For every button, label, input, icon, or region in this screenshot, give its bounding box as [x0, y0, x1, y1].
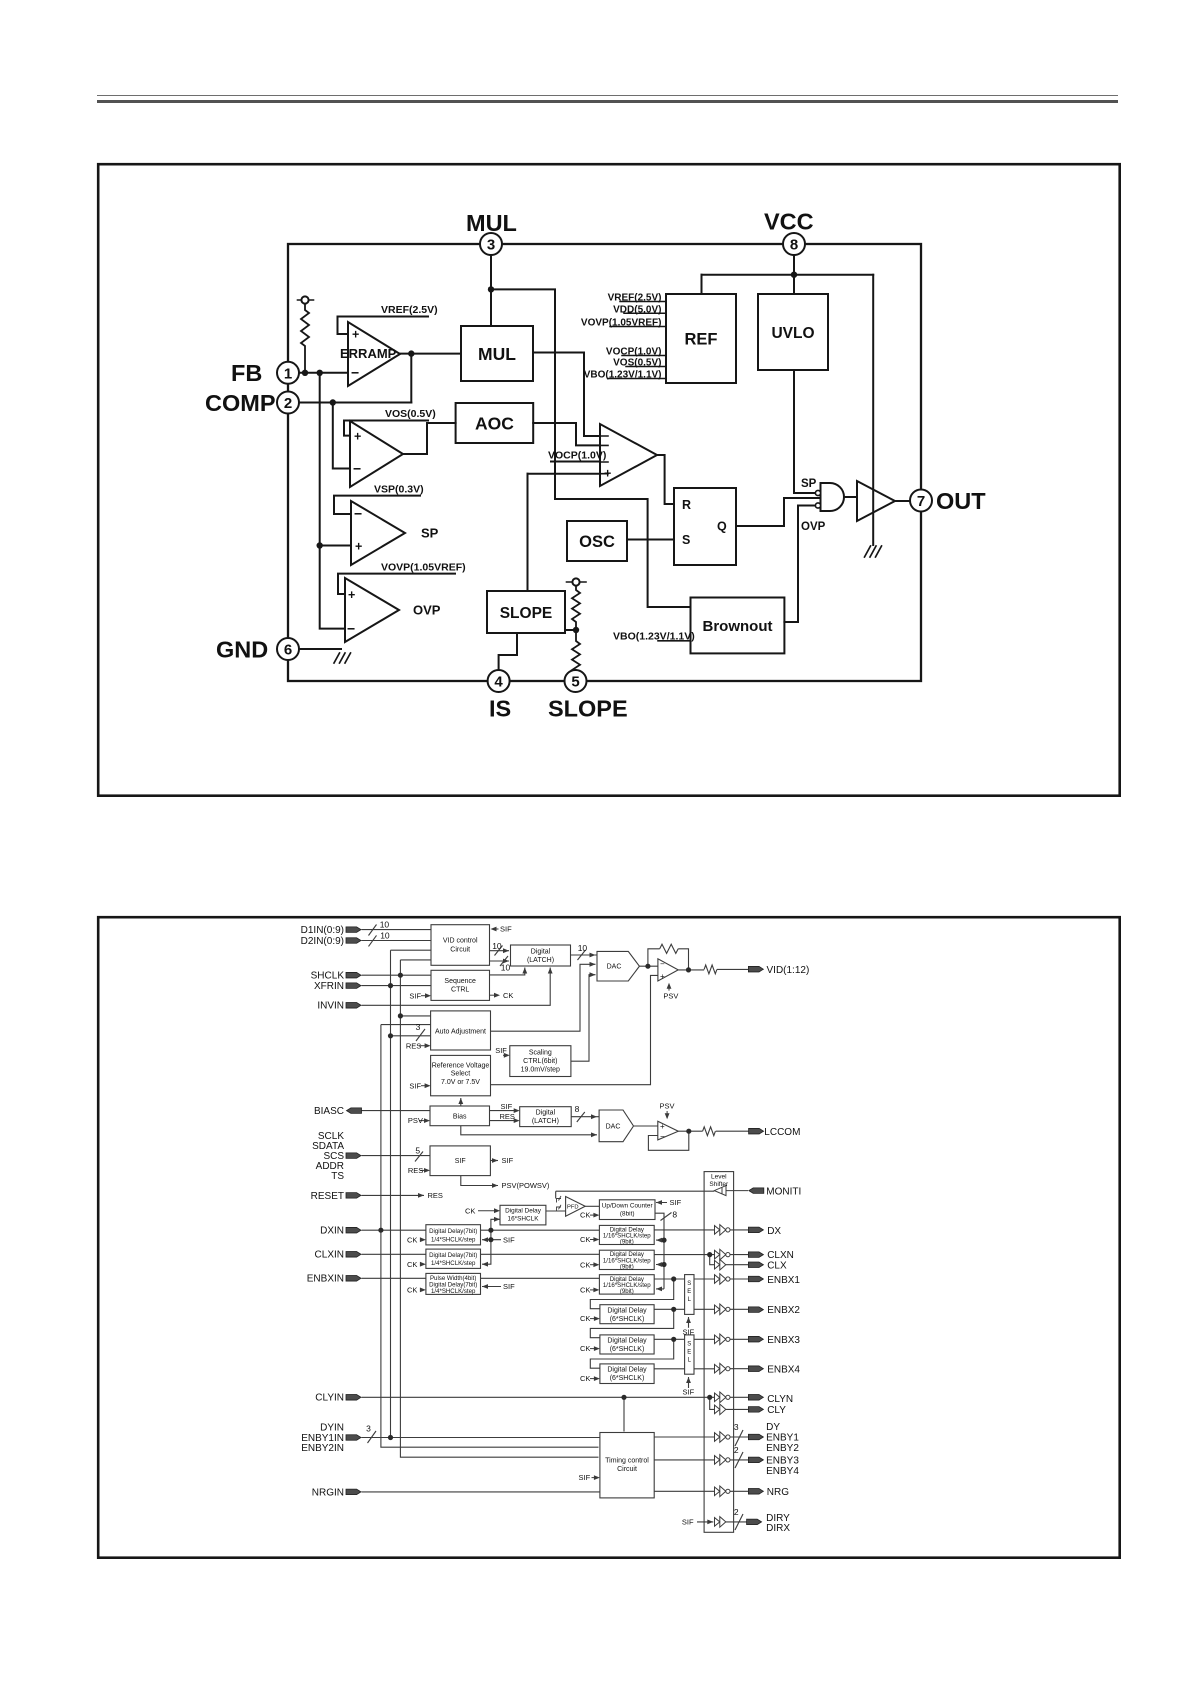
- svg-text:Shifter: Shifter: [709, 1181, 729, 1188]
- SEL1 box: [685, 1275, 694, 1315]
- buffer DX inverting: [715, 1225, 726, 1236]
- wire OSC to S input: [627, 539, 674, 541]
- svg-text:−: −: [660, 960, 665, 969]
- svg-text:Auto Adjustment: Auto Adjustment: [435, 1029, 486, 1036]
- svg-text:SIF: SIF: [503, 1282, 515, 1291]
- svg-text:3: 3: [734, 1422, 739, 1432]
- svg-text:(9bit): (9bit): [620, 1288, 634, 1295]
- svg-text:8: 8: [575, 1104, 580, 1114]
- wire BIASC input: [362, 1110, 431, 1112]
- opamp2 triangle: [658, 1121, 679, 1140]
- buffer ENBX1 inverting: [715, 1274, 726, 1285]
- svg-text:PSV: PSV: [660, 1102, 675, 1111]
- wire dxin row: [362, 1229, 715, 1231]
- node dots figure2: [398, 973, 403, 978]
- svg-text:10: 10: [501, 963, 511, 973]
- Auto Adjustment box: [431, 1011, 491, 1050]
- svg-text:ENBX2: ENBX2: [767, 1305, 800, 1316]
- svg-text:CK: CK: [580, 1344, 590, 1353]
- wire AND output to buffer: [844, 496, 857, 498]
- wire VOS(0.5V) reference into AOC comparator plus: [344, 421, 428, 436]
- svg-text:DY: DY: [766, 1422, 780, 1433]
- wire clyin row: [362, 1396, 715, 1398]
- flip-flop U6 RS latch box: [674, 488, 736, 565]
- svg-text:Timing control: Timing control: [605, 1458, 649, 1465]
- buffer CLXN inverting: [715, 1249, 726, 1260]
- svg-text:Circuit: Circuit: [450, 947, 470, 954]
- wire sel1 sif arrow: [688, 1317, 690, 1328]
- wire V2 branch to auto adjustment in1: [400, 1015, 430, 1017]
- pfd input step glyph top: [557, 1196, 562, 1203]
- svg-text:CK: CK: [407, 1260, 417, 1269]
- wire clxn to clx buffer: [710, 1255, 715, 1265]
- wire enbx3 row out: [654, 1338, 714, 1340]
- buffer ENBX3 inverting: [715, 1334, 726, 1345]
- svg-text:8: 8: [672, 1209, 677, 1219]
- svg-text:(9bit): (9bit): [620, 1264, 634, 1271]
- wire auto adjustment to dac1: [491, 964, 596, 1031]
- wire FB vertical bus down to SP and OVP comparators: [320, 373, 345, 629]
- wire enbxin sif stub: [482, 1286, 501, 1288]
- pin 4 IS circle: [488, 670, 510, 692]
- buffer output lines to pads: [730, 1229, 748, 1231]
- svg-text:Sequence: Sequence: [444, 978, 476, 985]
- wire 16shclk delay to pfd: [546, 1210, 566, 1212]
- resistor R-lccom series: [703, 1127, 716, 1136]
- wire timing out enby1: [654, 1436, 714, 1438]
- node dot COMP junction: [330, 399, 336, 405]
- ground at GND pin: [334, 653, 351, 663]
- wire SLOPE box bottom to IS pin: [499, 633, 517, 670]
- wire sequence ctrl output up into latch1: [490, 968, 525, 975]
- wire SHCLK: [362, 974, 432, 976]
- wire XFRIN: [362, 985, 432, 987]
- svg-text:RES: RES: [408, 1166, 423, 1175]
- svg-text:RESET: RESET: [311, 1191, 344, 1202]
- REF block box: [666, 294, 736, 383]
- wire VSP(0.3V) reference into SP comparator minus: [334, 496, 420, 514]
- pin 1 FB circle: [277, 362, 299, 384]
- svg-text:Digital Delay: Digital Delay: [505, 1208, 542, 1215]
- Brownout block box: [691, 598, 785, 654]
- svg-text:CLYN: CLYN: [767, 1394, 793, 1405]
- svg-text:NRGIN: NRGIN: [312, 1487, 344, 1498]
- svg-text:CK: CK: [580, 1260, 590, 1269]
- svg-text:7.0V or 7.5V: 7.0V or 7.5V: [441, 1079, 480, 1086]
- wire opamp1 feedback loop with resistor: [648, 949, 689, 970]
- svg-text:CLYIN: CLYIN: [315, 1393, 344, 1404]
- pin 2 COMP circle: [277, 392, 299, 414]
- svg-text:+: +: [660, 972, 665, 981]
- buffer NRG inverting: [715, 1486, 726, 1497]
- ground below driver: [865, 546, 882, 557]
- Digital LATCH1 box: [511, 945, 571, 966]
- svg-text:PFD: PFD: [567, 1205, 579, 1211]
- node dot FB bus junction: [317, 370, 323, 376]
- resistor R-fb1: [660, 944, 678, 953]
- wire opamp1 output to VID pad: [678, 968, 748, 971]
- svg-text:ENBY2IN: ENBY2IN: [301, 1443, 344, 1454]
- wire enbxin row: [362, 1277, 715, 1280]
- pin 3 MUL circle: [480, 233, 502, 255]
- svg-text:3: 3: [366, 1423, 371, 1433]
- delay116 box2R: [599, 1250, 654, 1269]
- buffer ENBX4 inverting: [715, 1363, 726, 1374]
- svg-text:1/4*SHCLK/step: 1/4*SHCLK/step: [431, 1260, 476, 1267]
- svg-text:SIF: SIF: [683, 1328, 695, 1337]
- wire vcc horizontal distribution: [702, 274, 874, 276]
- wire buffer to OUT pin: [895, 500, 910, 502]
- svg-text:SIF: SIF: [409, 1081, 421, 1090]
- buffer U8 output driver triangle: [857, 481, 895, 521]
- wire SLOPE box right to resistor node: [565, 629, 576, 631]
- delay6 box5: [600, 1335, 654, 1354]
- svg-text:CK: CK: [407, 1286, 417, 1295]
- pin 6 GND circle: [277, 638, 299, 660]
- bus slash marks: [369, 925, 377, 936]
- pin 5 SLOPE circle: [565, 670, 587, 692]
- svg-text:SIF: SIF: [503, 1235, 515, 1244]
- resistor R-slope upper: [567, 581, 587, 583]
- wire GND pin to ground symbol: [299, 648, 341, 650]
- PFD triangle: [566, 1197, 586, 1217]
- wire VOCP threshold into comparator input3: [551, 461, 600, 463]
- svg-text:SIF: SIF: [501, 1102, 513, 1111]
- svg-text:DIRX: DIRX: [766, 1523, 790, 1534]
- resistor R-FB vertical on FB pin: [298, 299, 314, 301]
- svg-text:CLXIN: CLXIN: [315, 1250, 344, 1261]
- buffer ENBX2 inverting: [715, 1304, 726, 1315]
- svg-text:VID(1:12): VID(1:12): [767, 965, 810, 976]
- svg-text:CK: CK: [580, 1211, 590, 1220]
- svg-text:BIASC: BIASC: [314, 1106, 344, 1117]
- svg-text:CK: CK: [503, 991, 513, 1000]
- wire latch2 to dac2 bus8: [571, 1116, 599, 1118]
- svg-text:10: 10: [578, 943, 588, 953]
- wire Q output to AND gate: [736, 498, 821, 526]
- comparator input ticks: [601, 436, 608, 474]
- svg-text:ENBXIN: ENBXIN: [307, 1274, 344, 1285]
- svg-text:Digital Delay: Digital Delay: [607, 1338, 647, 1345]
- svg-text:Circuit: Circuit: [617, 1466, 637, 1473]
- svg-text:16*SHCLK: 16*SHCLK: [508, 1215, 540, 1222]
- svg-text:NRG: NRG: [767, 1487, 789, 1498]
- wire MONIT line to buffer and PFD: [556, 1191, 715, 1198]
- svg-text:RES: RES: [428, 1191, 443, 1200]
- svg-text:Digital Delay(7bit): Digital Delay(7bit): [429, 1252, 477, 1259]
- svg-text:CK: CK: [580, 1235, 590, 1244]
- wire SCLK bus into SIF box: [362, 1155, 431, 1157]
- node dot slope resistor junction: [573, 627, 579, 633]
- pulsewidth delay7 box3L: [426, 1273, 481, 1294]
- wire SIF box psv output: [461, 1176, 498, 1186]
- psv arrow opamp1 up: [667, 985, 669, 1119]
- svg-text:(LATCH): (LATCH): [527, 957, 554, 964]
- comparator U3 SP triangle: [351, 501, 405, 565]
- wire D2IN bus: [362, 940, 432, 942]
- wire Brownout left input label line VBO: [658, 640, 691, 642]
- svg-text:10: 10: [492, 941, 502, 951]
- wire scaling ctrl to dac1: [571, 975, 596, 1061]
- Digital LATCH2 box: [520, 1107, 572, 1127]
- node dot erramp out junction: [408, 350, 414, 356]
- delay116 box3R: [599, 1275, 654, 1294]
- delay7 box1L: [426, 1225, 481, 1245]
- wire vertical V2 shclk/vid/timing: [400, 960, 598, 1457]
- wire VOVP(1.05VREF) reference into OVP comparator plus: [338, 574, 455, 594]
- UpDown Counter box: [599, 1200, 655, 1220]
- svg-text:Reference Voltage: Reference Voltage: [432, 1062, 490, 1069]
- svg-text:2: 2: [734, 1507, 739, 1517]
- svg-text:CK: CK: [580, 1286, 590, 1295]
- wire opamp2 output to LCCOM pad: [678, 1130, 748, 1132]
- buffer DY ENBY inverting: [715, 1432, 726, 1443]
- wire pfd to counter: [585, 1205, 599, 1207]
- wire latch1 to dac1 bus: [571, 954, 598, 956]
- wire vertical V3 autoadj/dxin/timing: [381, 1025, 599, 1448]
- output pads right column: [748, 966, 763, 972]
- Scaling CTRL box: [510, 1046, 571, 1077]
- svg-text:SIF: SIF: [682, 1518, 694, 1527]
- wire dxin sif stub and chain down: [482, 1230, 501, 1264]
- wire timing out nrg: [654, 1490, 714, 1492]
- SLOPE block box: [487, 591, 565, 633]
- wire wrap enbx2 to delay6 box5: [590, 1309, 673, 1337]
- wire COMP branch down to AOC comparator minus input: [333, 403, 350, 469]
- svg-text:3: 3: [416, 1022, 421, 1032]
- svg-text:Digital Delay: Digital Delay: [607, 1367, 647, 1374]
- REF label stub lines: [608, 302, 666, 379]
- svg-text:ENBX4: ENBX4: [767, 1364, 800, 1375]
- svg-text:CTRL: CTRL: [451, 987, 469, 994]
- svg-text:Bias: Bias: [453, 1113, 467, 1120]
- svg-text:5: 5: [415, 1145, 420, 1155]
- label stub lines: [496, 928, 499, 930]
- comparator U4 OVP triangle: [345, 578, 399, 642]
- figure 1 outer frame: [98, 164, 1119, 796]
- wire VREF(2.5V) reference into ERRAMP plus: [338, 317, 429, 335]
- wire slope signal to comparator plus input4: [528, 473, 601, 475]
- svg-text:CK: CK: [407, 1235, 417, 1244]
- pin 7 OUT circle: [910, 490, 932, 512]
- buffer ENBY3 inverting: [715, 1455, 726, 1466]
- svg-text:CLY: CLY: [767, 1405, 786, 1416]
- svg-text:VID control: VID control: [443, 938, 478, 945]
- wire clxin row: [362, 1253, 715, 1255]
- delay7 box2L: [426, 1249, 481, 1268]
- opamp1 triangle: [658, 959, 678, 981]
- svg-text:CK: CK: [465, 1206, 475, 1215]
- MONITI pad points left: [749, 1188, 764, 1194]
- svg-text:Digital: Digital: [536, 1110, 556, 1117]
- node dot pin3 junction: [488, 286, 494, 292]
- wire enby1in bus into timing: [362, 1437, 600, 1439]
- wire SIF box output: [490, 1160, 498, 1162]
- svg-text:TS: TS: [331, 1171, 344, 1182]
- Reference Voltage Select box: [431, 1055, 491, 1095]
- wire dac1 output to opamp1: [639, 964, 658, 967]
- svg-text:DX: DX: [767, 1226, 781, 1237]
- wire vid to latch1 bus a: [490, 950, 510, 952]
- svg-text:S: S: [687, 1342, 691, 1348]
- DAC1 polygon: [597, 951, 639, 981]
- wire vertical V1 xfrin/vid/enby: [391, 950, 432, 1437]
- wire COMP pin to erramp output junction: [299, 402, 411, 404]
- svg-text:Digital: Digital: [531, 949, 551, 956]
- VID control circuit box: [431, 925, 490, 966]
- svg-text:SIF: SIF: [500, 925, 512, 934]
- svg-text:CTRL(6bit): CTRL(6bit): [523, 1058, 557, 1065]
- wire AOC output to PWM comparator input2: [533, 422, 545, 424]
- svg-text:E: E: [687, 1289, 691, 1295]
- wire ERRAMP output to MUL box, with branch down to COMP: [400, 353, 461, 355]
- svg-text:D1IN(0:9): D1IN(0:9): [301, 925, 344, 936]
- op-amp U1 ERRAMP triangle: [348, 322, 400, 386]
- svg-text:SIF: SIF: [455, 1158, 466, 1165]
- svg-text:PSV(POWSV): PSV(POWSV): [502, 1181, 550, 1190]
- svg-text:(6*SHCLK): (6*SHCLK): [610, 1316, 645, 1323]
- svg-text:XFRIN: XFRIN: [314, 981, 344, 992]
- svg-text:D2IN(0:9): D2IN(0:9): [301, 936, 344, 947]
- svg-text:LCCOM: LCCOM: [764, 1127, 800, 1138]
- wire wrap enbx3 to delay6 box6: [590, 1339, 673, 1368]
- wire pin3 net to osc/brownout: right, down, right, down into Brownout: [491, 289, 691, 607]
- gate U7 AND gate: [821, 483, 845, 511]
- svg-text:Level: Level: [711, 1174, 727, 1181]
- svg-text:Up/Down Counter: Up/Down Counter: [602, 1203, 654, 1210]
- wire REF top feed: [701, 275, 703, 294]
- svg-text:PSV: PSV: [408, 1116, 423, 1125]
- svg-text:(6*SHCLK): (6*SHCLK): [610, 1375, 645, 1382]
- buffer DIRY: [715, 1517, 726, 1528]
- wire opamp2 feedback loop: [648, 1131, 688, 1150]
- wire enbx4 row out: [654, 1368, 714, 1370]
- wire D1IN bus: [362, 929, 432, 931]
- svg-text:(6*SHCLK): (6*SHCLK): [610, 1346, 645, 1353]
- Level shifter column: [704, 1172, 734, 1533]
- buffer MONITI left-pointing: [714, 1186, 726, 1196]
- svg-text:(9bit): (9bit): [620, 1239, 634, 1246]
- pin 8 VCC circle: [783, 233, 805, 255]
- svg-text:1/4*SHCLK/step: 1/4*SHCLK/step: [431, 1288, 476, 1295]
- wire Brownout output up to OVP gate input: [784, 506, 814, 623]
- BIASC pad points left: [347, 1108, 362, 1114]
- svg-text:SIF: SIF: [683, 1388, 695, 1397]
- wire vid to latch1 bus b: [490, 960, 510, 962]
- svg-text:DAC: DAC: [607, 964, 622, 971]
- svg-text:(LATCH): (LATCH): [532, 1118, 559, 1125]
- svg-text:E: E: [687, 1350, 691, 1356]
- svg-text:MONITI: MONITI: [766, 1187, 801, 1198]
- wire clyn to cly buffer: [710, 1397, 715, 1409]
- wire comparator output to RS flip-flop R input: [657, 455, 674, 504]
- MUL block box: [461, 326, 533, 381]
- wire sel2 sif arrow: [688, 1377, 690, 1388]
- node dot pin8 junction: [791, 272, 797, 278]
- wire enbx2 row out: [654, 1308, 714, 1310]
- arrowheads figure2: [503, 948, 509, 953]
- svg-text:SIF: SIF: [579, 1473, 591, 1482]
- DAC2 polygon: [599, 1110, 633, 1142]
- resistor R-vid series: [704, 965, 717, 974]
- top double rule: [97, 95, 1118, 97]
- wire counter 8bus down with arrows: [655, 1213, 664, 1289]
- svg-text:Scaling: Scaling: [529, 1050, 552, 1057]
- delay6 box4: [600, 1305, 654, 1324]
- Bias box: [430, 1106, 490, 1126]
- svg-text:1/4*SHCLK/step: 1/4*SHCLK/step: [431, 1236, 476, 1243]
- UVLO block box: [758, 294, 828, 370]
- comparator U5 PWM main comparator: [600, 424, 657, 486]
- svg-text:CK: CK: [580, 1374, 590, 1383]
- svg-text:SIF: SIF: [495, 1046, 507, 1055]
- figure 2 outer frame: [98, 917, 1119, 1557]
- AOC block box: [456, 403, 534, 443]
- delay116 box1R: [599, 1225, 654, 1244]
- svg-text:SIF: SIF: [409, 991, 421, 1000]
- wire reference voltage to opamp1 plus: [491, 975, 658, 1084]
- wire timing out enby3: [654, 1459, 714, 1461]
- svg-text:RES: RES: [500, 1112, 515, 1121]
- wire wrap enbx1 to delay6 box4: [590, 1279, 673, 1309]
- svg-text:SIF: SIF: [502, 1156, 514, 1165]
- svg-text:10: 10: [380, 930, 390, 940]
- svg-text:+: +: [660, 1122, 665, 1131]
- wire sif to diry buffer: [697, 1521, 713, 1523]
- svg-text:−: −: [660, 1132, 665, 1141]
- node dot FB resistor junction: [302, 370, 308, 376]
- svg-text:PSV: PSV: [663, 992, 678, 1001]
- svg-text:ENBY4: ENBY4: [766, 1466, 799, 1477]
- wire bias to latch2 sif/res: [490, 1111, 518, 1121]
- wire branch to SP comparator plus input: [320, 545, 351, 547]
- wire RESET to RES: [362, 1194, 425, 1196]
- pfd input step glyph bottom: [557, 1205, 562, 1211]
- OSC block box: [567, 521, 627, 561]
- delay6 box6: [600, 1364, 654, 1384]
- svg-text:ENBX3: ENBX3: [767, 1335, 800, 1346]
- svg-text:Digital Delay: Digital Delay: [607, 1307, 647, 1314]
- wire pin8 stub down: [793, 255, 795, 294]
- svg-text:CK: CK: [580, 1314, 590, 1323]
- svg-text:DAC: DAC: [606, 1124, 621, 1131]
- svg-text:S: S: [687, 1281, 691, 1287]
- svg-text:SIF: SIF: [670, 1198, 682, 1207]
- SEL2 box: [685, 1335, 694, 1374]
- SIF box: [430, 1146, 490, 1176]
- wire dac2 to opamp2: [634, 1125, 658, 1127]
- wire FB pin to ERRAMP minus: [299, 372, 348, 374]
- svg-text:ENBX1: ENBX1: [767, 1275, 800, 1286]
- svg-text:10: 10: [380, 920, 390, 930]
- Timing control circuit box: [600, 1433, 654, 1498]
- wire pin3 stub down to MUL box: [490, 255, 492, 326]
- wire dxin tap into 16shclk delay: [491, 1219, 500, 1230]
- wire V1 branch to auto adjustment bus3: [391, 1035, 431, 1037]
- Sequence CTRL box: [431, 970, 490, 1000]
- wire nrgin into timing: [362, 1491, 600, 1493]
- wire AOC comparator output into AOC box: [403, 423, 456, 454]
- buffer CLY: [715, 1404, 726, 1415]
- wire right of UVLO down to gate ground: [872, 275, 874, 545]
- wire INVIN to latch1 bottom: [362, 968, 551, 1006]
- svg-text:(8bit): (8bit): [620, 1210, 635, 1217]
- wire UVLO bottom to AND gate SP input: [794, 370, 816, 493]
- svg-text:INVIN: INVIN: [317, 1001, 344, 1012]
- svg-text:SHCLK: SHCLK: [311, 971, 345, 982]
- wire bias top to refv bottom: [460, 1098, 462, 1106]
- svg-text:CLX: CLX: [767, 1260, 787, 1271]
